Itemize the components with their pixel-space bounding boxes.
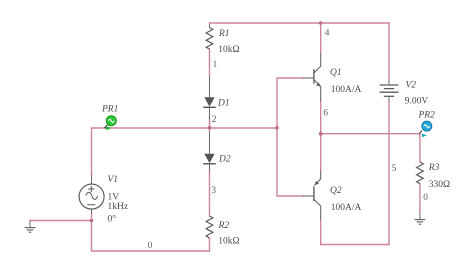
svg-text:R3: R3 (428, 163, 440, 173)
svg-text:V2: V2 (406, 81, 417, 91)
svg-text:D2: D2 (218, 155, 231, 165)
svg-text:PR1: PR1 (101, 105, 118, 115)
svg-text:1: 1 (213, 60, 218, 70)
svg-text:6: 6 (323, 109, 328, 119)
svg-text:3: 3 (211, 186, 216, 196)
svg-text:0: 0 (423, 193, 428, 203)
svg-text:R2: R2 (218, 221, 230, 231)
svg-text:R1: R1 (218, 29, 230, 39)
svg-text:0°: 0° (108, 213, 117, 224)
svg-text:330Ω: 330Ω (429, 180, 450, 190)
svg-text:2: 2 (212, 115, 217, 125)
svg-text:100A/A: 100A/A (331, 203, 362, 213)
svg-text:9.00V: 9.00V (405, 97, 429, 107)
svg-text:PR2: PR2 (418, 111, 436, 121)
svg-text:Q2: Q2 (330, 186, 342, 196)
svg-text:0: 0 (148, 241, 153, 251)
svg-text:100A/A: 100A/A (331, 85, 362, 95)
svg-text:1V: 1V (108, 192, 120, 202)
svg-text:4: 4 (325, 29, 330, 39)
svg-text:1kHz: 1kHz (108, 202, 129, 212)
svg-text:10kΩ: 10kΩ (218, 45, 239, 55)
svg-text:D1: D1 (217, 98, 230, 108)
svg-text:10kΩ: 10kΩ (218, 237, 239, 247)
svg-text:5: 5 (392, 164, 397, 174)
svg-text:V1: V1 (108, 175, 119, 185)
svg-text:Q1: Q1 (330, 68, 342, 78)
